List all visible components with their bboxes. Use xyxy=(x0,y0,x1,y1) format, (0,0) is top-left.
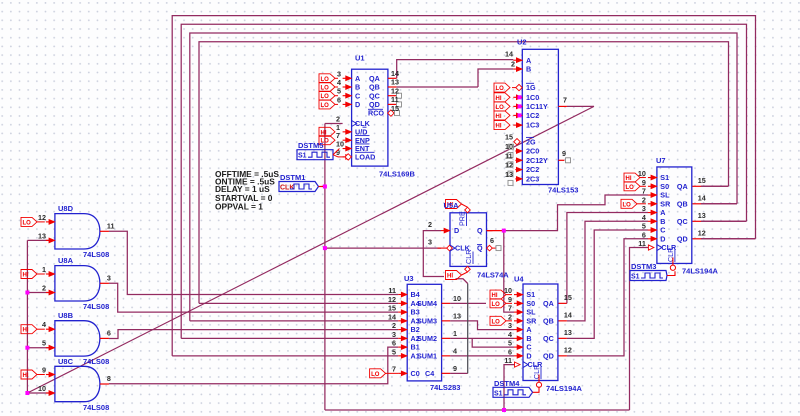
svg-text:9: 9 xyxy=(642,178,646,187)
svg-text:S1: S1 xyxy=(526,290,535,299)
svg-text:QC: QC xyxy=(543,334,554,343)
svg-text:SR: SR xyxy=(660,199,671,208)
svg-text:C4: C4 xyxy=(425,369,434,378)
svg-text:11: 11 xyxy=(504,356,512,365)
svg-text:12: 12 xyxy=(564,345,572,354)
svg-text:QC: QC xyxy=(677,217,688,226)
svg-text:QC: QC xyxy=(369,91,380,100)
svg-text:1G: 1G xyxy=(526,83,536,92)
svg-text:HI: HI xyxy=(496,96,502,102)
svg-text:14: 14 xyxy=(505,50,513,59)
svg-text:1C0: 1C0 xyxy=(526,93,539,102)
svg-text:LO: LO xyxy=(623,202,632,208)
svg-text:Q: Q xyxy=(477,226,483,235)
svg-text:6: 6 xyxy=(107,328,111,337)
svg-text:QA: QA xyxy=(543,299,554,308)
svg-text:7: 7 xyxy=(508,304,512,313)
svg-text:5: 5 xyxy=(508,339,512,348)
svg-text:B: B xyxy=(660,217,665,226)
svg-text:S1: S1 xyxy=(631,274,640,281)
svg-text:74LS08: 74LS08 xyxy=(83,250,109,259)
svg-text:74LS283: 74LS283 xyxy=(430,383,460,392)
svg-text:6: 6 xyxy=(337,95,341,104)
svg-text:74LS74A: 74LS74A xyxy=(477,271,509,280)
svg-text:2Y: 2Y xyxy=(539,156,548,165)
svg-text:S0: S0 xyxy=(660,182,669,191)
svg-text:1Y: 1Y xyxy=(539,102,548,111)
svg-text:QB: QB xyxy=(369,83,380,92)
svg-text:1: 1 xyxy=(453,329,457,338)
svg-text:2C3: 2C3 xyxy=(526,175,539,184)
svg-text:2: 2 xyxy=(642,195,646,204)
svg-text:LO: LO xyxy=(492,319,501,325)
svg-text:74LS08: 74LS08 xyxy=(83,357,109,366)
svg-text:SL: SL xyxy=(660,191,670,200)
svg-text:LO: LO xyxy=(492,302,501,308)
svg-text:9: 9 xyxy=(562,149,566,158)
svg-text:11: 11 xyxy=(505,151,513,160)
svg-text:SUM2: SUM2 xyxy=(417,334,437,343)
svg-text:HI: HI xyxy=(496,114,502,120)
svg-text:2G: 2G xyxy=(526,137,536,146)
svg-text:2: 2 xyxy=(392,321,396,330)
svg-text:LO: LO xyxy=(626,185,635,191)
svg-text:SL: SL xyxy=(526,308,536,317)
svg-text:4: 4 xyxy=(42,320,46,329)
svg-text:3: 3 xyxy=(107,273,111,282)
svg-text:12: 12 xyxy=(505,161,513,170)
svg-text:6: 6 xyxy=(490,236,494,245)
svg-text:QB: QB xyxy=(677,199,688,208)
svg-text:4: 4 xyxy=(508,330,512,339)
svg-text:13: 13 xyxy=(38,231,46,240)
svg-text:12: 12 xyxy=(388,295,396,304)
svg-text:5: 5 xyxy=(642,222,646,231)
svg-text:LO: LO xyxy=(496,105,505,111)
svg-text:CLR: CLR xyxy=(666,248,675,262)
svg-text:B: B xyxy=(355,83,360,92)
svg-text:13: 13 xyxy=(698,211,706,220)
svg-text:B1: B1 xyxy=(411,343,420,352)
svg-text:HI: HI xyxy=(492,293,498,299)
svg-text:13: 13 xyxy=(453,311,461,320)
svg-text:3: 3 xyxy=(392,330,396,339)
svg-text:2C0: 2C0 xyxy=(526,147,539,156)
svg-text:B2: B2 xyxy=(411,325,420,334)
svg-text:U7: U7 xyxy=(656,156,666,165)
svg-text:7: 7 xyxy=(392,365,396,374)
svg-text:U3: U3 xyxy=(404,274,414,283)
svg-text:2C2: 2C2 xyxy=(526,165,539,174)
svg-text:4: 4 xyxy=(642,213,646,222)
svg-text:SUM1: SUM1 xyxy=(417,351,437,360)
svg-text:B4: B4 xyxy=(411,290,420,299)
svg-text:U1: U1 xyxy=(355,54,365,63)
svg-text:QD: QD xyxy=(369,100,380,109)
svg-text:HI: HI xyxy=(447,274,453,280)
svg-text:DSTM3: DSTM3 xyxy=(631,262,656,271)
svg-text:SUM4: SUM4 xyxy=(417,299,437,308)
svg-text:9: 9 xyxy=(453,364,457,373)
svg-text:3: 3 xyxy=(337,69,341,78)
svg-text:12: 12 xyxy=(38,213,46,222)
svg-text:HI: HI xyxy=(23,273,29,279)
svg-text:10: 10 xyxy=(505,142,513,151)
svg-text:6: 6 xyxy=(392,339,396,348)
svg-text:DSTM5: DSTM5 xyxy=(298,141,323,150)
svg-text:HI: HI xyxy=(626,176,632,182)
svg-text:U8B: U8B xyxy=(58,311,74,320)
svg-text:1: 1 xyxy=(42,265,46,274)
svg-text:OPPVAL = 1: OPPVAL = 1 xyxy=(215,202,263,212)
svg-text:13: 13 xyxy=(391,78,399,87)
svg-text:14: 14 xyxy=(391,69,399,78)
svg-text:QD: QD xyxy=(677,234,688,243)
svg-text:A: A xyxy=(355,74,360,83)
svg-text:7: 7 xyxy=(642,187,646,196)
svg-text:CLR: CLR xyxy=(532,365,541,379)
svg-text:11: 11 xyxy=(107,221,115,230)
svg-text:QA: QA xyxy=(369,74,380,83)
svg-text:PRE: PRE xyxy=(458,211,467,226)
svg-text:LO: LO xyxy=(321,77,330,83)
svg-text:U4: U4 xyxy=(514,275,524,284)
svg-text:LO: LO xyxy=(321,94,330,100)
svg-text:6: 6 xyxy=(642,230,646,239)
svg-text:14: 14 xyxy=(564,310,572,319)
svg-text:74LS169B: 74LS169B xyxy=(379,170,415,179)
svg-text:15: 15 xyxy=(564,293,572,302)
svg-text:C0: C0 xyxy=(411,369,420,378)
svg-text:10: 10 xyxy=(453,294,461,303)
svg-text:B: B xyxy=(526,65,531,74)
svg-text:U8A: U8A xyxy=(58,256,74,265)
svg-text:74LS08: 74LS08 xyxy=(83,302,109,311)
svg-text:3: 3 xyxy=(428,238,432,247)
svg-text:11: 11 xyxy=(391,95,399,104)
svg-text:2: 2 xyxy=(42,284,46,293)
svg-text:2: 2 xyxy=(428,220,432,229)
svg-text:LO: LO xyxy=(496,86,505,92)
svg-text:D: D xyxy=(355,100,360,109)
svg-text:4: 4 xyxy=(337,78,341,87)
svg-text:HI: HI xyxy=(496,124,502,130)
svg-text:HI: HI xyxy=(23,373,29,379)
svg-text:2C1: 2C1 xyxy=(526,156,539,165)
svg-text:D: D xyxy=(526,351,531,360)
svg-text:3: 3 xyxy=(642,204,646,213)
svg-text:U2: U2 xyxy=(517,38,527,47)
svg-text:10: 10 xyxy=(38,384,46,393)
svg-text:C: C xyxy=(355,91,360,100)
svg-text:D: D xyxy=(660,234,665,243)
svg-text:6: 6 xyxy=(508,347,512,356)
svg-text:U8C: U8C xyxy=(58,357,74,366)
svg-text:11: 11 xyxy=(388,286,396,295)
svg-text:LO: LO xyxy=(321,103,330,109)
svg-text:1C2: 1C2 xyxy=(526,111,539,120)
svg-text:A: A xyxy=(526,325,531,334)
svg-text:D: D xyxy=(454,226,459,235)
svg-text:9: 9 xyxy=(508,295,512,304)
svg-text:15: 15 xyxy=(391,104,399,113)
svg-text:QB: QB xyxy=(543,316,554,325)
svg-text:7: 7 xyxy=(563,96,567,105)
svg-text:8: 8 xyxy=(107,374,111,383)
svg-text:S0: S0 xyxy=(526,299,535,308)
svg-text:15: 15 xyxy=(698,176,706,185)
svg-text:1C1: 1C1 xyxy=(526,102,539,111)
svg-text:S1: S1 xyxy=(660,173,669,182)
svg-text:U8D: U8D xyxy=(58,204,74,213)
svg-text:15: 15 xyxy=(505,133,513,142)
svg-text:QA: QA xyxy=(677,182,688,191)
svg-text:DSTM1: DSTM1 xyxy=(280,173,305,182)
svg-text:2: 2 xyxy=(511,60,515,69)
svg-text:74LS08: 74LS08 xyxy=(83,403,109,412)
svg-text:13: 13 xyxy=(564,328,572,337)
svg-text:S1: S1 xyxy=(494,390,503,397)
svg-text:CLK: CLK xyxy=(280,185,294,192)
svg-text:LOAD: LOAD xyxy=(355,153,375,162)
svg-text:14: 14 xyxy=(388,312,396,321)
svg-text:LO: LO xyxy=(371,372,380,378)
svg-text:12: 12 xyxy=(391,86,399,95)
svg-text:SR: SR xyxy=(526,316,537,325)
svg-text:B: B xyxy=(526,334,531,343)
svg-text:74LS194A: 74LS194A xyxy=(546,384,582,393)
svg-text:2: 2 xyxy=(508,312,512,321)
svg-text:QD: QD xyxy=(543,351,554,360)
svg-text:9: 9 xyxy=(42,366,46,375)
svg-text:3: 3 xyxy=(508,321,512,330)
svg-text:74LS153: 74LS153 xyxy=(548,186,578,195)
svg-text:C: C xyxy=(526,343,531,352)
svg-text:S1: S1 xyxy=(298,153,307,160)
svg-text:B3: B3 xyxy=(411,308,420,317)
svg-text:A: A xyxy=(526,56,531,65)
svg-text:12: 12 xyxy=(698,228,706,237)
svg-text:U5A: U5A xyxy=(444,201,460,210)
svg-text:5: 5 xyxy=(392,347,396,356)
svg-text:HI: HI xyxy=(23,328,29,334)
svg-text:13: 13 xyxy=(505,170,513,179)
svg-text:CLR: CLR xyxy=(464,250,473,264)
svg-text:11: 11 xyxy=(638,239,646,248)
svg-text:LO: LO xyxy=(321,86,330,92)
svg-text:1C3: 1C3 xyxy=(526,121,539,130)
svg-text:SUM3: SUM3 xyxy=(417,316,437,325)
svg-text:C: C xyxy=(660,226,665,235)
svg-text:A: A xyxy=(660,208,665,217)
svg-text:14: 14 xyxy=(698,193,706,202)
svg-text:DSTM4: DSTM4 xyxy=(494,379,520,388)
svg-text:74LS194A: 74LS194A xyxy=(682,267,718,276)
svg-text:5: 5 xyxy=(42,339,46,348)
svg-text:RCO: RCO xyxy=(368,109,384,118)
svg-text:15: 15 xyxy=(388,304,396,313)
svg-text:4: 4 xyxy=(453,346,457,355)
svg-text:5: 5 xyxy=(337,87,341,96)
svg-text:LO: LO xyxy=(23,220,32,226)
